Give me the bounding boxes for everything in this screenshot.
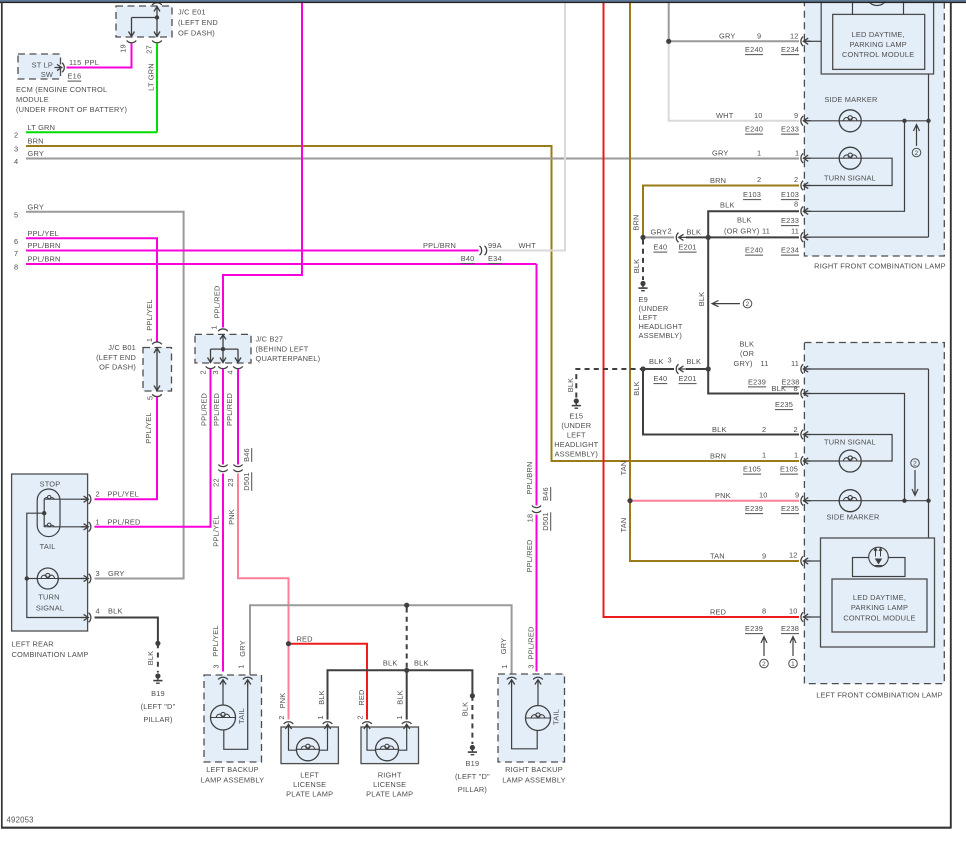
- svg-text:J/C B27: J/C B27: [256, 335, 284, 344]
- svg-text:PARKING LAMP: PARKING LAMP: [850, 40, 907, 49]
- svg-text:2: 2: [794, 175, 798, 184]
- svg-text:LEFT: LEFT: [300, 771, 319, 780]
- svg-text:B19: B19: [466, 759, 480, 768]
- svg-text:9: 9: [757, 32, 761, 41]
- svg-text:LT GRN: LT GRN: [147, 63, 156, 91]
- svg-text:SW: SW: [41, 70, 53, 79]
- svg-text:E40: E40: [654, 243, 668, 252]
- svg-text:BLK: BLK: [632, 381, 641, 396]
- svg-text:BLK: BLK: [649, 357, 664, 366]
- svg-text:PPL/BRN: PPL/BRN: [28, 255, 61, 264]
- svg-text:1: 1: [791, 661, 795, 668]
- svg-text:PPL/RED: PPL/RED: [108, 517, 141, 526]
- svg-text:8: 8: [14, 263, 18, 272]
- svg-text:SIDE MARKER: SIDE MARKER: [826, 513, 879, 522]
- svg-text:BLK: BLK: [566, 378, 575, 393]
- svg-text:GRY: GRY: [28, 149, 44, 158]
- wire RED license feed: [286, 635, 367, 720]
- svg-text:9: 9: [795, 491, 799, 500]
- left front combination lamp: [710, 340, 944, 700]
- wire BRN row 3: [14, 137, 799, 462]
- svg-text:3: 3: [668, 356, 672, 365]
- svg-text:BLK: BLK: [687, 357, 702, 366]
- svg-text:BRN: BRN: [710, 176, 726, 185]
- svg-text:MODULE: MODULE: [16, 95, 49, 104]
- svg-text:492053: 492053: [7, 816, 34, 825]
- svg-text:(UNDER: (UNDER: [639, 304, 669, 313]
- svg-text:PPL/YEL: PPL/YEL: [145, 299, 154, 330]
- svg-text:(UNDER: (UNDER: [561, 421, 591, 430]
- svg-text:2: 2: [794, 425, 798, 434]
- svg-text:2: 2: [913, 460, 917, 467]
- wire LT GRN row 2: [14, 44, 157, 140]
- svg-text:PPL/BRN: PPL/BRN: [525, 461, 534, 494]
- wire GRY row 4 to right front lamp pin 1: [14, 149, 799, 166]
- svg-text:6: 6: [14, 237, 18, 246]
- svg-text:E240: E240: [745, 45, 763, 54]
- svg-text:2: 2: [14, 131, 18, 140]
- svg-text:2: 2: [762, 661, 766, 668]
- junction block J/C E01: [116, 3, 218, 54]
- svg-text:4: 4: [14, 157, 18, 166]
- svg-text:LEFT: LEFT: [567, 431, 586, 440]
- svg-text:E238: E238: [781, 624, 799, 633]
- left backup lamp assembly: [201, 664, 265, 784]
- svg-text:1: 1: [316, 715, 325, 719]
- svg-text:RIGHT: RIGHT: [378, 771, 402, 780]
- svg-text:PILLAR): PILLAR): [143, 715, 172, 724]
- svg-text:1: 1: [500, 664, 509, 668]
- svg-text:SIDE MARKER: SIDE MARKER: [824, 95, 877, 104]
- circled 2 annotation pointing at BLK vertical: [712, 299, 752, 308]
- svg-text:PPL/YEL: PPL/YEL: [212, 515, 221, 546]
- svg-text:11: 11: [761, 359, 769, 368]
- svg-text:99A: 99A: [488, 241, 502, 250]
- wire PPL from ST LP SW to J/C E01 pin 19: [67, 44, 132, 68]
- svg-text:18: 18: [526, 514, 535, 523]
- right front combination lamp: [710, 0, 946, 271]
- wire GRY row 5 to left rear lamp pin 3: [14, 202, 184, 578]
- svg-text:E240: E240: [745, 125, 763, 134]
- svg-text:WHT: WHT: [716, 111, 734, 120]
- svg-text:J/C E01: J/C E01: [178, 8, 206, 17]
- svg-text:LED DAYTIME,: LED DAYTIME,: [852, 30, 905, 39]
- svg-text:PLATE LAMP: PLATE LAMP: [366, 790, 413, 799]
- svg-text:(UNDER FRONT OF BATTERY): (UNDER FRONT OF BATTERY): [16, 105, 127, 114]
- svg-text:PPL/RED: PPL/RED: [212, 393, 221, 426]
- svg-text:E233: E233: [781, 125, 799, 134]
- svg-text:2: 2: [96, 490, 100, 499]
- svg-text:D501: D501: [541, 512, 550, 530]
- svg-text:(OR GRY): (OR GRY): [724, 227, 760, 236]
- svg-text:E103: E103: [781, 190, 799, 199]
- svg-text:B40: B40: [461, 254, 475, 263]
- svg-text:TAN: TAN: [619, 518, 628, 533]
- wire PPL from top to J/C B27 pin 1: [213, 3, 302, 328]
- wire PPL/BRN row 8 vertical / connector D501 pin 18 / PPL/RED to right backup: [525, 264, 551, 672]
- svg-text:BLK: BLK: [146, 651, 155, 666]
- svg-text:TAN: TAN: [619, 461, 628, 476]
- svg-text:10: 10: [759, 491, 768, 500]
- svg-text:BLK: BLK: [712, 425, 727, 434]
- svg-text:E239: E239: [745, 624, 763, 633]
- svg-text:LEFT: LEFT: [639, 313, 658, 322]
- svg-text:2: 2: [668, 227, 672, 236]
- svg-text:1: 1: [757, 149, 761, 158]
- svg-text:GRY: GRY: [108, 569, 124, 578]
- svg-text:TAIL: TAIL: [237, 708, 246, 724]
- svg-text:E15: E15: [569, 412, 583, 421]
- svg-text:BRN: BRN: [28, 137, 44, 146]
- wire PPL/YEL row 6 to J/C B01 pin 1: [14, 229, 157, 342]
- dashed link backup common to BLK ground net: [406, 608, 408, 668]
- svg-text:9: 9: [762, 552, 766, 561]
- svg-text:BLK: BLK: [720, 201, 735, 210]
- svg-text:12: 12: [790, 32, 799, 41]
- svg-text:4: 4: [96, 607, 100, 616]
- svg-text:E105: E105: [743, 465, 761, 474]
- inline connector E40/E201 top with GRY stub: [640, 227, 708, 253]
- svg-text:(OR: (OR: [740, 349, 754, 358]
- svg-text:LED DAYTIME,: LED DAYTIME,: [853, 593, 906, 602]
- wire RED vertical to left front lamp pin 10: [604, 3, 800, 617]
- svg-text:TAN: TAN: [710, 552, 725, 561]
- svg-text:PPL/RED: PPL/RED: [525, 539, 534, 572]
- svg-text:5: 5: [146, 396, 155, 400]
- svg-text:RED: RED: [297, 635, 313, 644]
- svg-text:PPL/RED: PPL/RED: [225, 393, 234, 426]
- svg-text:115: 115: [69, 58, 81, 67]
- svg-text:BRN: BRN: [632, 214, 641, 230]
- ground E15 with dashed wire: [554, 369, 643, 459]
- wire WHT row 7 continuation to top: [489, 3, 565, 251]
- wire WHT to right front lamp pin 9: [669, 41, 799, 121]
- svg-text:E233: E233: [781, 216, 799, 225]
- wire GRY from top to right front lamp pin 12: [666, 3, 799, 44]
- svg-text:QUARTERPANEL): QUARTERPANEL): [256, 354, 321, 363]
- svg-text:BLK: BLK: [772, 384, 787, 393]
- svg-text:E239: E239: [748, 377, 766, 386]
- svg-text:PPL/RED: PPL/RED: [213, 285, 222, 318]
- svg-text:11: 11: [762, 227, 770, 236]
- svg-text:E9: E9: [639, 295, 648, 304]
- svg-text:OF DASH): OF DASH): [99, 363, 136, 372]
- svg-text:BLK: BLK: [396, 690, 405, 705]
- svg-text:BLK: BLK: [108, 607, 123, 616]
- junction block J/C B27: [195, 325, 320, 374]
- svg-text:LAMP ASSEMBLY: LAMP ASSEMBLY: [502, 776, 566, 785]
- svg-text:PNK: PNK: [227, 509, 236, 525]
- svg-text:8: 8: [762, 607, 766, 616]
- svg-text:PPL/YEL: PPL/YEL: [144, 412, 153, 443]
- svg-text:E105: E105: [780, 465, 798, 474]
- svg-text:PPL/BRN: PPL/BRN: [423, 241, 456, 250]
- svg-text:E234: E234: [781, 45, 799, 54]
- E239 E238 connector arrows with circled 1 and 2: [760, 637, 798, 668]
- svg-text:PPL/RED: PPL/RED: [200, 393, 209, 426]
- svg-text:GRY: GRY: [28, 202, 44, 211]
- wire PPL/YEL J/C B01 to rear lamp pin 2: [95, 397, 158, 499]
- svg-text:3: 3: [211, 370, 220, 374]
- svg-text:10: 10: [754, 111, 763, 120]
- svg-text:ASSEMBLY): ASSEMBLY): [639, 331, 683, 340]
- svg-text:TURN SIGNAL: TURN SIGNAL: [824, 174, 876, 183]
- svg-text:BLK: BLK: [461, 702, 470, 717]
- wire BLK rear lamp pin 4 and ground B19 left: [95, 618, 176, 725]
- svg-text:(LEFT END: (LEFT END: [96, 353, 136, 362]
- svg-text:BRN: BRN: [710, 452, 726, 461]
- svg-text:TURN SIGNAL: TURN SIGNAL: [824, 438, 876, 447]
- svg-text:BLK: BLK: [737, 216, 752, 225]
- svg-text:HEADLIGHT: HEADLIGHT: [639, 322, 683, 331]
- wire TAN vertical to left front lamp pin 12: [619, 3, 799, 561]
- svg-text:E201: E201: [679, 243, 697, 252]
- right backup lamp assembly: [498, 664, 566, 784]
- svg-text:E239: E239: [745, 504, 763, 513]
- svg-text:12: 12: [789, 551, 798, 560]
- svg-text:BLK: BLK: [383, 659, 398, 668]
- left license plate lamp: [277, 715, 338, 798]
- right license plate lamp: [356, 715, 419, 798]
- svg-text:E16: E16: [68, 72, 82, 81]
- svg-text:LEFT REAR: LEFT REAR: [12, 640, 54, 649]
- svg-text:RIGHT BACKUP: RIGHT BACKUP: [505, 765, 563, 774]
- svg-text:GRY: GRY: [651, 228, 667, 237]
- svg-text:PPL/YEL: PPL/YEL: [28, 229, 59, 238]
- svg-text:B46: B46: [242, 448, 251, 462]
- svg-text:(BEHIND LEFT: (BEHIND LEFT: [256, 345, 309, 354]
- svg-text:BLK: BLK: [632, 259, 641, 274]
- svg-text:1: 1: [210, 325, 219, 329]
- wire BLK main vertical: [697, 211, 799, 393]
- svg-text:2: 2: [277, 715, 286, 719]
- inline connector E40/E201 bottom: [640, 356, 708, 384]
- svg-text:1: 1: [395, 715, 404, 719]
- svg-text:PPL/BRN: PPL/BRN: [28, 241, 61, 250]
- svg-text:LEFT FRONT COMBINATION LAMP: LEFT FRONT COMBINATION LAMP: [816, 691, 943, 700]
- svg-text:3: 3: [527, 664, 536, 668]
- wire BRN right front lamp pin 2 to E9 junction: [632, 186, 799, 238]
- svg-text:2: 2: [915, 150, 919, 157]
- svg-text:5: 5: [14, 210, 18, 219]
- svg-text:RED: RED: [710, 608, 726, 617]
- svg-text:CONTROL MODULE: CONTROL MODULE: [842, 50, 914, 59]
- svg-text:LICENSE: LICENSE: [293, 780, 326, 789]
- svg-text:PLATE LAMP: PLATE LAMP: [286, 790, 333, 799]
- svg-text:E103: E103: [743, 190, 761, 199]
- svg-text:23: 23: [226, 478, 235, 487]
- svg-text:GRY): GRY): [734, 359, 753, 368]
- svg-text:10: 10: [789, 607, 798, 616]
- switch ST LP SW: [16, 54, 127, 114]
- svg-text:11: 11: [791, 227, 799, 236]
- svg-text:8: 8: [794, 200, 798, 209]
- svg-text:J/C B01: J/C B01: [108, 343, 136, 352]
- wire PPL/RED B27 pin 3 / connector D501 pin 22 / PPL/YEL to left backup: [211, 369, 227, 672]
- svg-text:2: 2: [356, 715, 365, 719]
- svg-text:OF DASH): OF DASH): [178, 29, 215, 38]
- svg-text:E235: E235: [775, 400, 793, 409]
- svg-text:TAIL: TAIL: [552, 709, 561, 725]
- svg-text:3: 3: [96, 569, 100, 578]
- svg-text:PARKING LAMP: PARKING LAMP: [851, 603, 908, 612]
- inline connector B40/E34 pin 99A: [461, 241, 536, 264]
- svg-text:8: 8: [794, 384, 798, 393]
- svg-text:ASSEMBLY): ASSEMBLY): [555, 450, 599, 459]
- svg-text:11: 11: [791, 359, 799, 368]
- svg-text:GRY: GRY: [719, 32, 735, 41]
- svg-text:7: 7: [14, 249, 18, 258]
- svg-text:ST LP: ST LP: [32, 61, 53, 70]
- svg-text:LAMP ASSEMBLY: LAMP ASSEMBLY: [201, 776, 265, 785]
- svg-text:2: 2: [746, 301, 750, 308]
- svg-text:E240: E240: [745, 246, 763, 255]
- svg-text:TURN: TURN: [38, 593, 59, 602]
- svg-text:ECM (ENGINE CONTROL: ECM (ENGINE CONTROL: [16, 85, 107, 94]
- svg-text:2: 2: [757, 175, 761, 184]
- svg-text:BLK: BLK: [317, 690, 326, 705]
- svg-text:3: 3: [212, 664, 221, 668]
- svg-text:PPL/RED: PPL/RED: [527, 626, 536, 659]
- svg-text:(LEFT "D": (LEFT "D": [455, 772, 490, 781]
- svg-text:19: 19: [119, 44, 128, 53]
- svg-text:BLK: BLK: [740, 340, 755, 349]
- svg-text:PPL/YEL: PPL/YEL: [211, 625, 220, 656]
- svg-text:PNK: PNK: [278, 693, 287, 709]
- svg-text:TAIL: TAIL: [40, 542, 56, 551]
- svg-text:B46: B46: [541, 487, 550, 501]
- svg-text:HEADLIGHT: HEADLIGHT: [554, 440, 598, 449]
- wire GRY backup lamp commons: [238, 603, 511, 675]
- svg-text:GRY: GRY: [238, 640, 247, 656]
- wire PPL/RED B27 pin 4 / connector D501 pin 23 / PNK to left license lamp: [225, 369, 288, 720]
- svg-text:1: 1: [795, 149, 799, 158]
- svg-text:GRY: GRY: [712, 149, 728, 158]
- svg-text:(LEFT END: (LEFT END: [178, 18, 218, 27]
- svg-text:1: 1: [237, 664, 246, 668]
- wire BLK to left front lamp pin 2: [632, 369, 799, 435]
- svg-text:COMBINATION LAMP: COMBINATION LAMP: [12, 650, 89, 659]
- wire PPL/RED B27 pin 2 to rear lamp pin 1: [95, 369, 211, 527]
- svg-text:E34: E34: [488, 254, 502, 263]
- ground B19 right: [455, 693, 490, 794]
- svg-text:BLK: BLK: [697, 292, 706, 307]
- svg-text:RED: RED: [357, 689, 366, 705]
- svg-text:3: 3: [14, 145, 18, 154]
- svg-text:1: 1: [762, 451, 766, 460]
- svg-text:2: 2: [199, 370, 208, 374]
- svg-text:D501: D501: [242, 472, 251, 490]
- wire BLK license lamp grounds: [317, 659, 472, 720]
- svg-text:CONTROL MODULE: CONTROL MODULE: [843, 614, 915, 623]
- wire PNK to left front lamp pin 9: [627, 498, 799, 503]
- svg-text:LICENSE: LICENSE: [373, 780, 406, 789]
- svg-text:PILLAR): PILLAR): [458, 785, 487, 794]
- svg-text:PNK: PNK: [715, 491, 731, 500]
- svg-text:BLK: BLK: [414, 659, 429, 668]
- svg-text:1: 1: [96, 517, 100, 526]
- svg-text:B19: B19: [151, 689, 165, 698]
- svg-text:1: 1: [794, 451, 798, 460]
- svg-text:9: 9: [794, 111, 798, 120]
- svg-text:STOP: STOP: [40, 480, 61, 489]
- svg-text:2: 2: [762, 425, 766, 434]
- svg-text:BLK: BLK: [687, 228, 702, 237]
- junction block J/C B01: [96, 338, 171, 400]
- svg-text:GRY: GRY: [499, 638, 508, 654]
- svg-text:E201: E201: [679, 374, 697, 383]
- svg-text:PPL: PPL: [85, 58, 100, 67]
- svg-text:E234: E234: [781, 246, 799, 255]
- svg-text:LT GRN: LT GRN: [28, 123, 56, 132]
- svg-text:(LEFT "D": (LEFT "D": [141, 702, 176, 711]
- svg-text:RIGHT FRONT COMBINATION LAMP: RIGHT FRONT COMBINATION LAMP: [814, 262, 946, 271]
- svg-text:WHT: WHT: [519, 241, 537, 250]
- wire PPL/BRN row 8: [14, 255, 537, 272]
- svg-text:LEFT BACKUP: LEFT BACKUP: [206, 765, 259, 774]
- svg-text:PPL/YEL: PPL/YEL: [108, 490, 139, 499]
- svg-text:4: 4: [226, 370, 235, 374]
- svg-text:E40: E40: [654, 374, 668, 383]
- ground E9: [632, 240, 683, 341]
- svg-text:SIGNAL: SIGNAL: [36, 604, 64, 613]
- svg-text:27: 27: [145, 45, 154, 54]
- wire PPL/BRN row 7: [14, 241, 479, 258]
- svg-text:E235: E235: [781, 504, 799, 513]
- svg-text:1: 1: [145, 338, 154, 342]
- svg-text:22: 22: [212, 478, 221, 487]
- left rear combination lamp: [12, 474, 141, 659]
